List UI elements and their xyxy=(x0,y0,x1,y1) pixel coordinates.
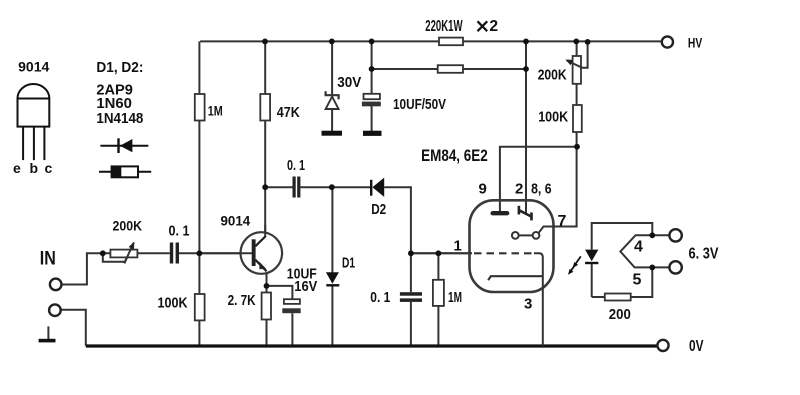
svg-text:30V: 30V xyxy=(337,74,361,91)
svg-text:0. 1: 0. 1 xyxy=(169,223,190,240)
svg-text:8, 6: 8, 6 xyxy=(531,181,552,198)
svg-text:b: b xyxy=(30,160,39,176)
svg-text:HV: HV xyxy=(688,35,703,51)
svg-text:0V: 0V xyxy=(689,338,704,355)
svg-text:9014: 9014 xyxy=(221,213,251,229)
svg-text:200K: 200K xyxy=(538,67,567,84)
svg-text:9014: 9014 xyxy=(18,59,49,75)
svg-text:100K: 100K xyxy=(158,295,188,312)
svg-text:200K: 200K xyxy=(113,218,143,234)
svg-text:200: 200 xyxy=(609,306,631,323)
svg-text:47K: 47K xyxy=(277,104,300,121)
svg-text:2: 2 xyxy=(515,181,523,198)
svg-text:5: 5 xyxy=(633,272,642,289)
svg-text:10UF/50V: 10UF/50V xyxy=(393,96,446,113)
svg-text:4: 4 xyxy=(634,239,643,256)
svg-text:0. 1: 0. 1 xyxy=(370,289,390,306)
svg-text:EM84, 6E2: EM84, 6E2 xyxy=(421,146,488,165)
svg-text:1: 1 xyxy=(454,238,462,255)
svg-text:7: 7 xyxy=(558,213,567,230)
svg-text:1M: 1M xyxy=(448,289,462,306)
svg-text:220K1W: 220K1W xyxy=(425,18,463,35)
svg-text:1N4148: 1N4148 xyxy=(96,110,143,127)
svg-text:16V: 16V xyxy=(294,278,317,295)
svg-text:1M: 1M xyxy=(208,103,223,119)
svg-text:e: e xyxy=(13,160,21,176)
svg-text:2. 7K: 2. 7K xyxy=(228,292,256,309)
svg-text:IN: IN xyxy=(40,248,56,269)
svg-text:9: 9 xyxy=(479,181,487,198)
svg-text:100K: 100K xyxy=(538,109,568,126)
svg-text:D1: D1 xyxy=(342,255,355,272)
svg-text:D2: D2 xyxy=(371,201,386,218)
svg-text:D1, D2:: D1, D2: xyxy=(96,59,143,76)
svg-text:2: 2 xyxy=(489,18,498,35)
svg-text:3: 3 xyxy=(524,296,532,313)
svg-text:c: c xyxy=(45,160,53,176)
svg-text:0. 1: 0. 1 xyxy=(287,157,305,174)
svg-text:6. 3V: 6. 3V xyxy=(689,246,719,263)
